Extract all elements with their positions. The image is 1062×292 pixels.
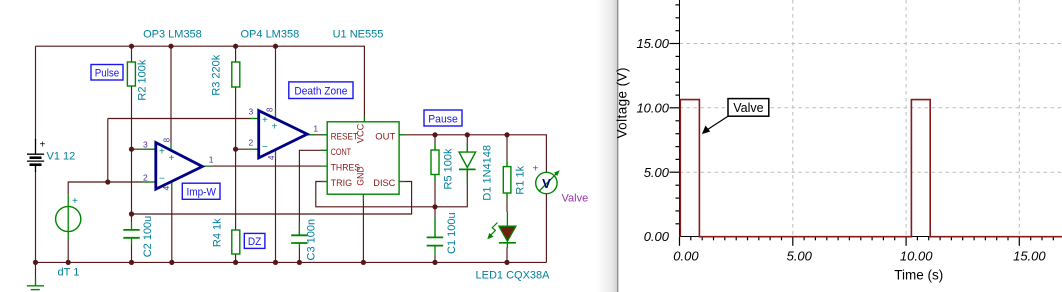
OP3 pin 4 stub	[171, 182, 173, 191]
svg-text:1: 1	[313, 123, 318, 133]
junction (35.5,262.4)	[33, 260, 38, 265]
wire feedback node A vertical	[107, 119, 109, 183]
svg-text:R5 100k: R5 100k	[443, 148, 455, 189]
U1 DISC stub	[399, 181, 405, 183]
svg-text:Death Zone: Death Zone	[294, 86, 347, 98]
svg-text:Valve: Valve	[733, 101, 763, 115]
svg-text:Time (s): Time (s)	[894, 268, 943, 283]
svg-text:+: +	[72, 196, 78, 207]
junction (107.8,182)	[105, 179, 110, 184]
junction (363.4,262.4)	[361, 260, 366, 265]
svg-text:3: 3	[143, 139, 148, 149]
U1 VCC stub	[363, 117, 365, 122]
op-amp OP4	[249, 107, 319, 160]
svg-text:1: 1	[209, 155, 214, 165]
svg-text:Pause: Pause	[428, 113, 458, 125]
wire node A row to op-amp OP4 pin 3	[108, 118, 259, 120]
svg-text:4: 4	[267, 155, 276, 160]
junction (467.3,134.8)	[465, 132, 470, 137]
resistor R5	[431, 143, 455, 189]
junction (131.5,46.2)	[129, 44, 134, 49]
x ticks	[680, 237, 1054, 246]
wire OP4 output to U1 RESET	[307, 134, 327, 136]
svg-text:D1 1N4148: D1 1N4148	[482, 145, 494, 201]
svg-text:10.00: 10.00	[636, 100, 669, 115]
svg-text:OP3 LM358: OP3 LM358	[143, 29, 202, 41]
svg-text:5.00: 5.00	[644, 165, 670, 180]
svg-text:−: −	[262, 142, 268, 153]
wire dT bottom	[67, 240, 69, 262]
OP3 pin 8 stub	[170, 143, 172, 150]
wire dT row to op-amp OP3 pin 2	[68, 182, 156, 194]
wire OP4 negative supply to ground rail	[275, 150, 277, 262]
LED LED1	[476, 212, 551, 282]
U1 TRIG stub	[321, 181, 327, 183]
svg-text:0.00: 0.00	[644, 229, 670, 244]
wire C1 bottom	[434, 256, 436, 262]
svg-text:RESET: RESET	[331, 132, 359, 143]
wire left rail top	[35, 46, 37, 140]
svg-text:C1 100u: C1 100u	[446, 212, 458, 254]
svg-text:OUT: OUT	[375, 132, 395, 143]
capacitor C2	[123, 216, 154, 258]
resistor R1	[503, 160, 526, 199]
wire U1 CONT to C3	[299, 150, 327, 235]
svg-text:+: +	[533, 164, 539, 175]
gridlines	[680, 0, 1062, 237]
svg-text:LED1 CQX38A: LED1 CQX38A	[476, 270, 551, 282]
OP3 pin 1 stub	[202, 165, 212, 167]
op-amp OP3	[143, 137, 214, 190]
wire R4 bottom	[235, 254, 237, 262]
U1 RESET stub	[321, 134, 327, 136]
junction (131.5,214)	[129, 211, 134, 216]
svg-text:+: +	[169, 153, 175, 164]
voltmeter Valve	[533, 164, 589, 205]
OP3 pin 2 stub	[142, 181, 156, 183]
wire R1 branch	[506, 135, 508, 167]
label Pause	[424, 110, 462, 126]
resistor R2	[127, 59, 148, 100]
svg-text:VCC: VCC	[356, 124, 367, 144]
svg-text:+: +	[262, 115, 268, 126]
SCHEMATIC PANEL	[27, 29, 588, 290]
svg-text:dT 1: dT 1	[58, 267, 80, 279]
green pin stubs	[142, 108, 405, 201]
junction (507,262.4)	[504, 260, 509, 265]
junction (435,262.4)	[432, 260, 437, 265]
OP4 pin 3 stub	[251, 118, 259, 120]
junction (68.2,262.4)	[66, 260, 71, 265]
svg-text:DZ: DZ	[248, 236, 262, 248]
svg-text:3: 3	[249, 107, 254, 117]
Valve annotation	[702, 99, 769, 135]
wire U1 OUT row to voltmeter	[399, 135, 546, 173]
wire R3 top	[235, 46, 237, 62]
label DZ	[244, 233, 265, 248]
panel divider shade	[597, 0, 617, 292]
wire OP3 output to U1 THRES	[202, 165, 327, 167]
resistor R3	[211, 54, 240, 95]
U1 GND stub	[362, 194, 364, 201]
capacitor C1	[427, 212, 458, 256]
svg-text:15.00: 15.00	[1013, 249, 1046, 264]
wire OP3 negative supply to ground rail	[171, 183, 173, 262]
wire C3 bottom	[298, 248, 300, 262]
wire top supply rail	[36, 46, 365, 122]
svg-text:GND: GND	[356, 166, 367, 186]
svg-text:0.00: 0.00	[673, 249, 699, 264]
svg-text:15.00: 15.00	[636, 36, 669, 51]
U1 OUT stub	[399, 134, 405, 136]
svg-text:C3 100n: C3 100n	[306, 219, 318, 261]
wire U1 GND to ground rail	[362, 194, 364, 262]
U1 THRES stub	[321, 165, 327, 167]
wire D1 branch	[466, 135, 468, 152]
axis tick labels	[636, 36, 1046, 264]
label Death Zone	[289, 82, 353, 99]
OP4 pin 2 stub	[251, 148, 259, 150]
wire C2 bottom	[131, 245, 133, 262]
svg-text:2: 2	[143, 172, 148, 182]
OP4 pin 8 stub	[275, 108, 277, 119]
wire R5 bottom to node	[434, 175, 436, 207]
junction (171.8,262.4)	[169, 260, 174, 265]
label Imp-W	[182, 183, 220, 199]
svg-text:DISC: DISC	[373, 178, 395, 189]
svg-text:V1 12: V1 12	[47, 151, 76, 163]
waveform	[680, 100, 1062, 237]
generator dT 1	[56, 194, 81, 278]
junction (131.5,149.2)	[129, 147, 134, 152]
wire R5 branch	[434, 135, 436, 150]
wire D1 bottom to node	[435, 169, 467, 206]
label Pulse	[91, 65, 123, 81]
wire voltmeter bottom	[545, 194, 547, 263]
wire node to C1	[434, 207, 436, 238]
svg-text:R4 1k: R4 1k	[212, 218, 224, 247]
axes	[680, 0, 1062, 237]
OP4 pin 1 stub	[307, 134, 315, 136]
resistor R4	[212, 218, 240, 254]
junction (235.6,149.2)	[233, 147, 238, 152]
junction (435,134.8)	[432, 132, 437, 137]
panel divider line	[617, 0, 619, 292]
wire OP4 positive supply drop	[275, 46, 277, 117]
svg-text:10.00: 10.00	[900, 249, 933, 264]
junction (171,46.2)	[168, 44, 173, 49]
junction (235.6,46.2)	[233, 44, 238, 49]
svg-text:R3 220k: R3 220k	[211, 54, 223, 95]
wire R2 to C2 column	[131, 85, 133, 223]
timer U1 NE555	[327, 122, 399, 194]
svg-text:+: +	[40, 140, 46, 151]
wire OP3 positive supply drop	[170, 46, 172, 148]
wire R2 column	[131, 46, 133, 61]
diode D1	[459, 143, 494, 201]
svg-text:Imp-W: Imp-W	[186, 187, 216, 199]
svg-text:U1 NE555: U1 NE555	[333, 29, 384, 41]
y ticks	[670, 5, 680, 224]
svg-text:8: 8	[162, 137, 171, 142]
ground	[27, 279, 44, 290]
svg-text:Valve: Valve	[562, 193, 589, 205]
wire bottom ground rail	[36, 261, 547, 263]
svg-text:Voltage (V): Voltage (V)	[615, 68, 630, 139]
wire U1 DISC to C2 row	[132, 182, 412, 215]
junction (131.5,262.4)	[129, 260, 134, 265]
OP3 pin 3 stub	[142, 148, 156, 150]
junction (275.5,46.2)	[273, 44, 278, 49]
wire left rail bottom	[35, 171, 37, 279]
svg-text:−: −	[159, 174, 165, 185]
svg-text:TRIG: TRIG	[331, 178, 353, 189]
wire LED1 bottom	[506, 248, 508, 263]
junction (275.5,262.4)	[273, 260, 278, 265]
OP4 pin 4 stub	[275, 150, 277, 158]
CHART PANEL	[597, 0, 1062, 292]
svg-text:2: 2	[249, 138, 254, 148]
svg-text:5.00: 5.00	[787, 249, 813, 264]
junction (507,134.8)	[504, 132, 509, 137]
wire op-amp OP4 pin 2 stub row	[236, 148, 259, 150]
svg-text:+: +	[272, 121, 278, 132]
svg-text:CONT: CONT	[331, 147, 352, 158]
wire op-amp OP3 pin 3 stub row	[132, 148, 157, 150]
wire R3 to R4 column	[235, 87, 237, 230]
svg-text:OP4 LM358: OP4 LM358	[241, 29, 300, 41]
wire U1 TRIG loop	[316, 182, 435, 207]
junction (299.4,262.4)	[297, 260, 302, 265]
svg-text:8: 8	[266, 107, 275, 112]
battery V1	[27, 139, 75, 172]
svg-text:Pulse: Pulse	[95, 68, 120, 80]
capacitor C3	[291, 219, 317, 261]
svg-text:4: 4	[162, 185, 171, 190]
svg-text:V: V	[542, 176, 551, 191]
junction (235.6,262.4)	[233, 260, 238, 265]
svg-text:R2 100k: R2 100k	[137, 59, 149, 100]
junction (435,206.8)	[432, 204, 437, 209]
svg-text:C2 100u: C2 100u	[142, 216, 154, 258]
U1 CONT stub	[321, 149, 327, 151]
svg-text:R1 1k: R1 1k	[515, 165, 527, 194]
wire R1 to LED1	[506, 193, 508, 212]
svg-text:+: +	[159, 147, 165, 158]
